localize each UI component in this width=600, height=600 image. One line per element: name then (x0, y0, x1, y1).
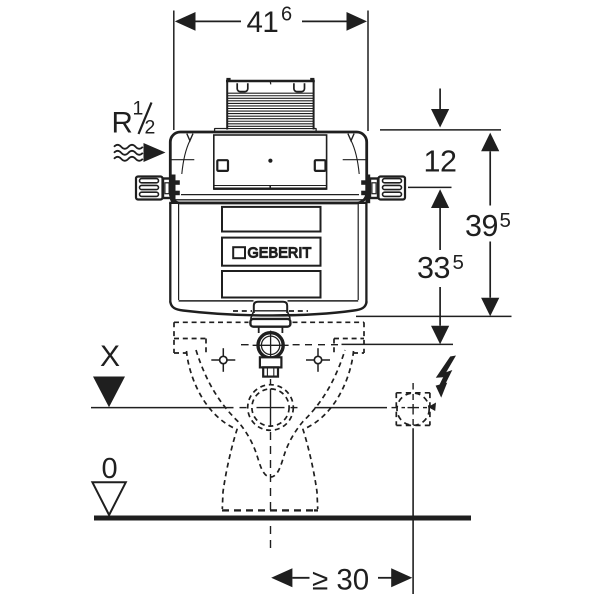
protection box clip left (237, 83, 248, 91)
svg-text:2: 2 (145, 117, 156, 139)
svg-text:41: 41 (247, 6, 279, 39)
water inlet arrow (144, 143, 166, 162)
access panel (214, 135, 327, 189)
bracket right nubs (361, 180, 365, 185)
svg-text:0: 0 (102, 453, 118, 485)
bracket left nubs (176, 180, 180, 185)
X level line (91, 407, 234, 409)
svg-text:5: 5 (500, 209, 511, 232)
bend cross (253, 344, 289, 346)
bowl outer left (187, 351, 238, 509)
cistern lower body top edge (169, 202, 367, 204)
lower body inner side lines (178, 203, 180, 300)
ceramic line behind flush bend (233, 310, 252, 312)
fixing point cross right (306, 359, 330, 361)
svg-text:R: R (112, 107, 133, 140)
electrical box dashed square (396, 393, 430, 426)
toilet base bottom dashes (222, 509, 318, 511)
dimension 41.6 arrow left (175, 12, 196, 31)
dimension 41.6 arrow right (347, 12, 368, 31)
flush pipe stubs (258, 327, 260, 333)
protection box center tick (269, 81, 272, 84)
level 0 open triangle (92, 482, 125, 515)
protection box clip right (294, 83, 305, 91)
svg-text:39: 39 (465, 209, 498, 243)
dimension 41.6 extension line right (367, 11, 369, 132)
reference line top of cistern (380, 129, 501, 131)
toilet center line (270, 379, 272, 548)
dimension 33.5 (431, 189, 449, 208)
svg-text:1: 1 (133, 98, 144, 120)
flush nut (250, 319, 290, 327)
X level triangle (93, 377, 125, 408)
lower body sides (169, 203, 171, 303)
lightning bolt (436, 356, 456, 378)
service panel section 3 (222, 271, 321, 298)
water supply bracket left rod (136, 177, 163, 200)
svg-text:X: X (100, 340, 120, 373)
electrical box center lines (392, 383, 428, 425)
water supply bracket right rod (379, 177, 406, 200)
reference line water inlet (408, 186, 452, 188)
bolt tip mark at box (428, 403, 436, 412)
dimension 41.6 line (194, 20, 241, 22)
protection box bottom flange (214, 128, 216, 132)
bowl inner / trap curve (196, 350, 345, 477)
toilet ceramic dashed outline (174, 311, 364, 509)
bend outlet upper (260, 357, 282, 367)
electrical vertical line (412, 428, 414, 594)
protection box top edge (226, 80, 315, 83)
bend outlet lower (263, 367, 278, 376)
svg-text:5: 5 (453, 251, 464, 274)
flush bend circle (256, 331, 284, 359)
protection box stripes (227, 93, 313, 128)
bowl outer right (303, 351, 354, 509)
lower body inner bottom line (179, 300, 254, 302)
service panel section 2 (logo) (222, 238, 321, 266)
fixing point cross left (211, 359, 235, 361)
lower body bottom curve (170, 302, 366, 316)
bracket right bar (366, 175, 371, 204)
dimension 41.6 extension line left (173, 11, 175, 131)
access panel center dot (268, 159, 272, 163)
reference line cistern bottom (356, 315, 512, 317)
access panel clip right (315, 160, 326, 171)
frame corner mould line right (351, 141, 359, 174)
ceramic top rectangle (174, 321, 249, 323)
svg-text:33: 33 (417, 251, 450, 285)
cistern upper frame (170, 132, 366, 203)
floor line (94, 516, 471, 521)
ceramic notch left (174, 338, 206, 340)
reference line bend center (342, 343, 454, 345)
dimension >=30 (292, 577, 309, 579)
protection box sides (226, 81, 228, 130)
frame tick left (172, 159, 195, 161)
svg-text:GEBERIT: GEBERIT (248, 245, 312, 261)
bracket right clamp (370, 179, 378, 199)
flush bell flare (251, 311, 254, 319)
frame V notch right (348, 134, 354, 141)
svg-text:12: 12 (424, 145, 457, 179)
dimension 39.5 (481, 133, 499, 152)
frame bottom lines (181, 194, 359, 196)
service panel section 1 (222, 207, 321, 232)
access panel bottom edge (214, 188, 327, 190)
ceramic notch right (334, 338, 364, 340)
flush bell (254, 302, 287, 313)
outlet circle inner (252, 389, 289, 426)
outlet circle outer (248, 385, 294, 431)
svg-text:≥ 30: ≥ 30 (312, 564, 369, 597)
electrical box dashed circle (397, 393, 429, 425)
water waves (114, 145, 143, 149)
protection box corner tabs (226, 78, 230, 81)
frame V notch left (187, 134, 193, 141)
dimension 12 (439, 89, 441, 111)
bracket left clamp (163, 179, 171, 199)
frame tick right (343, 159, 366, 161)
svg-text:6: 6 (281, 4, 292, 26)
frame corner mould line left (182, 141, 190, 174)
bracket left bar (171, 175, 176, 204)
geberit logo square (233, 247, 245, 258)
access panel clip left (217, 160, 228, 171)
